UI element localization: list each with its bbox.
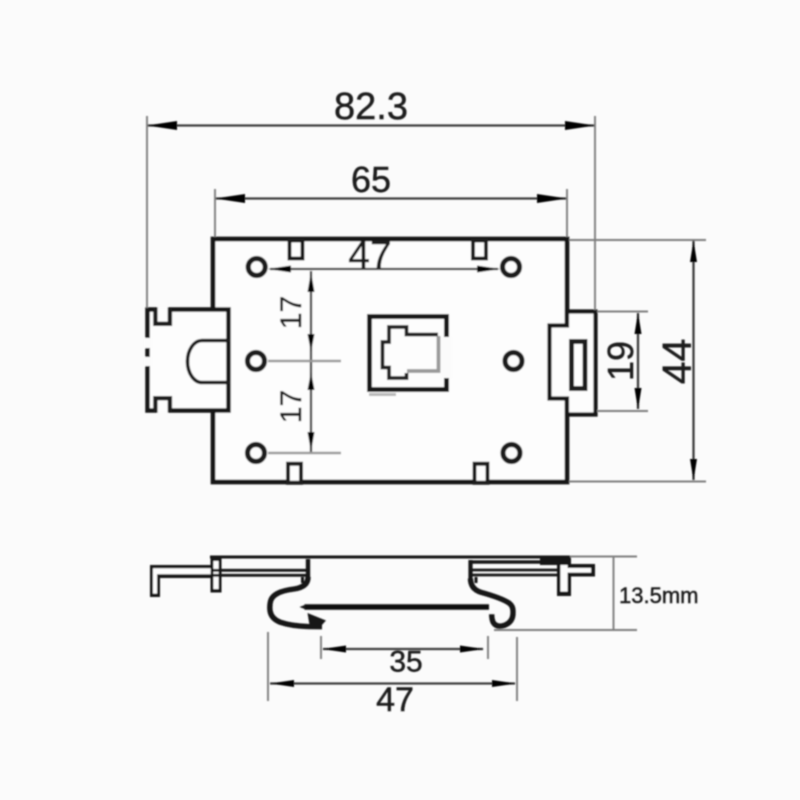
dim 82.3 arrow right (565, 121, 595, 130)
right T pin stub hollow (562, 568, 591, 573)
dim 47 top line (270, 268, 498, 270)
left gamma hook hollow (153, 568, 212, 593)
dim 47 top arrow left (268, 266, 291, 273)
left clip bottom slot (155, 398, 170, 412)
dim 82.3 line (148, 124, 594, 126)
mid hole stub line (268, 360, 341, 363)
dim 44 line (692, 241, 694, 480)
central socket outer square (370, 317, 447, 390)
hole bottom-left (248, 445, 265, 462)
right T pin vertical hollow (561, 562, 568, 592)
left gamma hook body (150, 565, 215, 597)
dim 17 vertical line (310, 271, 312, 452)
right jaw curved band (471, 579, 514, 627)
dim 65 arrow right (537, 194, 567, 203)
body outline (213, 239, 567, 482)
bottom edge notch right (475, 464, 488, 483)
left clip top slot (155, 308, 170, 324)
central socket inner profile gray side (407, 336, 439, 371)
dim 44 arrow down (690, 459, 697, 481)
rail channel line (305, 604, 490, 610)
left jaw beak (308, 613, 327, 626)
rail channel line left taper (300, 605, 306, 610)
dim 65 arrow left (215, 194, 245, 203)
left clip bottom slot edge gap (158, 407, 168, 414)
left jaw neck inner wall (301, 577, 304, 583)
svg-text:47: 47 (348, 234, 391, 277)
dim 19 ext bottom (597, 410, 648, 412)
right jaw neck (468, 560, 472, 581)
dim 17 arrow up top (308, 272, 315, 292)
dim 47 bottom arrow right (492, 680, 516, 687)
dim 44 ext top (569, 239, 706, 241)
left clip edge gap lower (144, 357, 152, 366)
dim 82.3 ext line right (594, 116, 596, 310)
central socket right edge gap (441, 337, 452, 378)
svg-text:65: 65 (351, 159, 391, 200)
right T pin vertical body (557, 558, 571, 596)
left clip edge gap upper (144, 338, 152, 348)
dim 19 line (637, 313, 639, 409)
dim 19 ext top (597, 311, 648, 313)
dim 13.5 ext top (570, 556, 637, 558)
dim 35 arrow right (460, 646, 484, 653)
svg-text:13.5mm: 13.5mm (619, 583, 698, 608)
top edge notch left (290, 241, 303, 259)
dim 47 bottom ext left (267, 632, 269, 701)
right T pin stub body (566, 564, 595, 577)
dim 35 ext right (487, 636, 489, 659)
dim 47 top arrow right (477, 266, 500, 273)
right clip ear (550, 312, 596, 415)
left jaw neck (306, 559, 310, 580)
svg-text:17: 17 (275, 296, 308, 329)
dim 65 line (216, 197, 566, 199)
dim 35 arrow left (322, 646, 346, 653)
dim 17 arrow down bottom (308, 432, 315, 452)
dim 44 arrow up (690, 241, 697, 263)
svg-text:35: 35 (389, 646, 422, 679)
bottom edge notch left (288, 464, 301, 483)
left tooth body (211, 558, 222, 593)
svg-text:82.3: 82.3 (334, 86, 408, 128)
svg-text:47: 47 (376, 681, 414, 719)
dim 65 ext line left (214, 189, 216, 237)
dim 65 ext line right (566, 189, 568, 237)
svg-text:19: 19 (600, 341, 641, 381)
plate line right segment middle (470, 569, 566, 572)
central socket bottom shadow (369, 393, 396, 396)
hole bottom-right (503, 445, 520, 462)
dim 35 line (323, 648, 483, 650)
left clip arch (188, 341, 231, 383)
dim 13.5 vertical (613, 557, 615, 630)
svg-text:44: 44 (654, 339, 700, 385)
dim 19 arrow down (635, 388, 642, 410)
dim 17 arrow down mid (308, 334, 315, 352)
svg-text:17: 17 (275, 390, 308, 423)
left clip top slot edge gap (158, 306, 168, 313)
dim 17 arrow up mid (308, 372, 315, 390)
plate top line (210, 556, 571, 559)
plate line right segment lower (470, 574, 566, 577)
dim 82.3 ext line left (146, 116, 148, 308)
plate line right segment top (470, 560, 566, 564)
plate line left segment lower (213, 574, 307, 577)
dim 82.3 arrow left (147, 121, 177, 130)
plate right end block (540, 556, 569, 565)
dim 47 bottom line (270, 682, 515, 684)
left tooth hollow (214, 561, 219, 589)
central socket inner profile (383, 327, 439, 378)
right jaw neck inner wall (475, 577, 478, 583)
bottom hole stub line (268, 452, 341, 455)
plate line left segment upper (213, 569, 307, 572)
top edge notch right (473, 241, 486, 259)
dim 47 bottom ext right (516, 637, 518, 701)
left clip ear (148, 310, 229, 411)
dim 19 arrow up (635, 313, 642, 335)
left jaw curved band (270, 577, 322, 627)
right clip slot (572, 342, 586, 389)
hole mid-right (505, 353, 522, 370)
hole mid-left (248, 353, 265, 370)
hole top-right (503, 259, 520, 276)
dim 13.5 ext bottom (494, 629, 637, 631)
dim 35 ext left (320, 636, 322, 659)
hole top-left (248, 259, 265, 276)
dim 44 ext bottom (569, 481, 706, 483)
dim 47 bottom arrow left (270, 680, 294, 687)
